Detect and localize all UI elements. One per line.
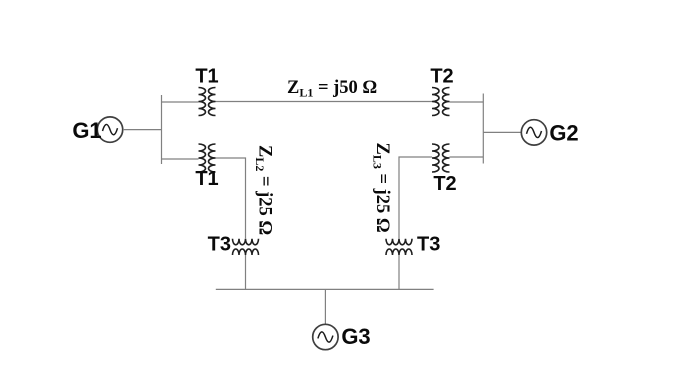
wire T3 right to bottom bus — [398, 255, 400, 289]
svg-text:T1: T1 — [195, 168, 218, 190]
transformer T3 right — [386, 239, 412, 255]
transformer T1 top — [199, 88, 216, 116]
wire T1 bottom to left drop corner — [216, 158, 246, 239]
svg-text:T3: T3 — [417, 234, 440, 256]
transformer T2 bottom — [432, 144, 450, 172]
transformer T3 left — [233, 239, 259, 255]
transformer T1 bottom — [199, 144, 216, 172]
wire line ZL1 (T1 top to T2 top) — [216, 101, 433, 103]
svg-text:G2: G2 — [549, 121, 578, 146]
wire T3 left to bottom bus — [245, 255, 247, 289]
wire left bus to T1 bottom — [162, 158, 199, 160]
wire T2 top to right bus — [450, 101, 484, 103]
left bus — [161, 95, 163, 164]
generator G2 — [521, 120, 546, 145]
wire bottom bus to G3 — [324, 289, 326, 324]
svg-text:ZL2 = j25 Ω: ZL2 = j25 Ω — [253, 145, 275, 235]
wire right bus to G2 — [483, 131, 521, 133]
svg-text:ZL1 = j50 Ω: ZL1 = j50 Ω — [287, 78, 377, 100]
svg-text:ZL3 = j25 Ω: ZL3 = j25 Ω — [371, 143, 393, 233]
svg-text:G3: G3 — [341, 324, 370, 349]
svg-text:G1: G1 — [72, 118, 101, 143]
transformer T2 top — [432, 88, 450, 116]
bottom bus — [216, 288, 434, 290]
svg-text:T2: T2 — [433, 173, 456, 195]
svg-text:T3: T3 — [208, 234, 231, 256]
generator G1 — [97, 117, 122, 142]
svg-text:T2: T2 — [430, 66, 453, 88]
wire G1 to left bus — [123, 129, 162, 131]
generator G3 — [313, 324, 338, 349]
wire left bus to T1 top — [162, 101, 199, 103]
wire T2 bottom left (right drop corner) — [399, 157, 432, 239]
svg-text:T1: T1 — [195, 66, 218, 88]
right bus — [482, 94, 484, 164]
wire T2 bottom to right bus — [450, 156, 484, 158]
